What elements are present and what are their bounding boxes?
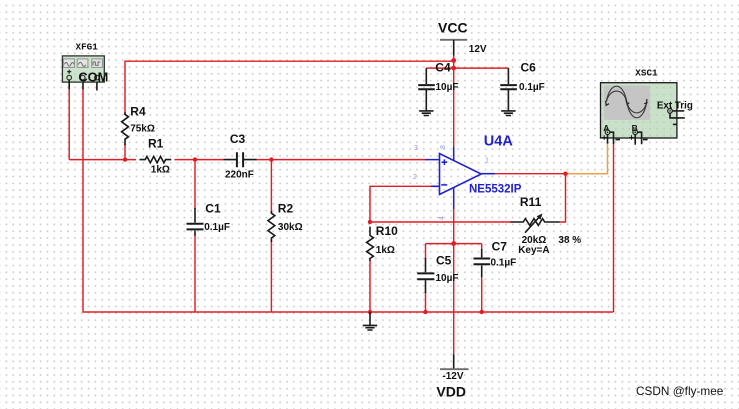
svg-text:C4: C4 [435,61,451,75]
junction: R4 / main net [123,157,127,161]
wire: R10 bottom lead to ground net [369,261,371,313]
wire: C7 top lead [481,244,483,250]
junction: R2 / main net [269,157,273,161]
wire: R4 bottom lead to main net [124,144,126,160]
svg-text:1: 1 [485,158,489,165]
svg-text:C6: C6 [521,61,537,75]
pin number 2 [413,174,417,181]
function generator XFG1 [62,41,108,90]
wire: R10 top node to R11 left lead [370,221,511,223]
wire: C5 bottom lead to ground net [425,292,427,312]
svg-text:0.1µF: 0.1µF [491,258,517,269]
wire: XFG1 plus terminal down to main input net [68,89,70,160]
svg-text:VDD: VDD [436,384,466,400]
resistor R1 [140,136,172,175]
svg-text:R2: R2 [278,202,294,216]
svg-text:0.1µF: 0.1µF [519,82,545,93]
wire: C4 top to C6 top rail [426,67,508,69]
wire: R1 right to C1 node and C3 left lead [175,159,224,161]
junction: C5 / ground net [423,310,427,314]
svg-text:0.1µF: 0.1µF [204,222,230,233]
junction: VCC node [451,58,456,63]
capacitor C7 [474,240,517,278]
wire: op-amp output to scope node [494,173,566,175]
svg-text:CSDN @fly-mee: CSDN @fly-mee [636,384,724,398]
svg-text:38 %: 38 % [558,235,581,246]
svg-text:XFG1: XFG1 [76,41,99,52]
op-amp U4A [425,134,521,209]
wire: R2 top lead from main net [270,160,272,213]
junction: pin2/R10/R11 node [368,220,372,224]
svg-text:1kΩ: 1kΩ [151,165,170,176]
svg-text:C7: C7 [492,240,508,254]
svg-text:10µF: 10µF [436,82,459,93]
junction: R10 / ground net [368,310,372,314]
capacitor C3 [223,132,256,180]
wire: C5 top lead [425,244,427,259]
wire: XFG1 COM down to ground net [83,89,614,312]
wire: main signal net left segment [69,159,136,161]
junction: C7 / ground net [480,310,484,314]
junction: C1 / main net [193,157,197,161]
junction: output node [563,172,567,176]
pin number 1 [485,158,489,165]
wire: R11 right lead up to output node [559,174,565,222]
svg-text:VCC: VCC [438,19,468,35]
ground under R10 [363,312,377,330]
svg-text:R11: R11 [520,195,542,209]
svg-text:R4: R4 [130,105,146,119]
svg-text:C1: C1 [205,202,221,216]
svg-text:Ext Trig: Ext Trig [657,100,693,111]
wire: C3 right to R2 node and op-amp pin3 [256,159,426,161]
potentiometer R11 [511,195,582,256]
svg-text:-12V: -12V [442,371,463,382]
svg-text:4: 4 [439,216,446,220]
svg-text:Key=A: Key=A [518,245,549,256]
resistor R10 [367,224,399,261]
wire: C7 bottom lead to ground net [481,276,483,312]
wire: orange output to scope channel A [566,143,608,173]
wire: C1 top lead from main net [194,160,196,209]
wire: VCC node down to C4/C6 rail and op-amp pin8 [453,60,455,147]
svg-text:U4A: U4A [484,134,514,150]
wire: R2 bottom lead to ground net [270,240,272,312]
capacitor C5 [417,254,458,294]
resistor R4 [122,105,155,146]
svg-text:R10: R10 [376,224,398,238]
pin number 8 [440,145,447,149]
ground under C4 [419,111,433,116]
oscilloscope XSC1 [601,68,693,145]
svg-text:NE5532IP: NE5532IP [469,183,522,195]
ground under C6 [501,111,515,116]
svg-text:3: 3 [414,145,418,152]
VDD power symbol (-12V) [436,355,468,400]
junction: C4/C6 rail on VCC line [451,66,456,71]
svg-text:12V: 12V [469,44,487,55]
svg-text:30kΩ: 30kΩ [278,222,303,233]
wire: C1 bottom lead to ground net [194,234,196,312]
resistor R2 [268,202,303,242]
svg-text:R1: R1 [148,136,164,150]
capacitor C1 [187,202,230,236]
svg-text:10µF: 10µF [436,273,459,284]
svg-text:A: A [603,123,609,133]
svg-text:C5: C5 [436,254,452,268]
svg-text:XSC1: XSC1 [635,68,658,79]
svg-text:C3: C3 [230,132,246,146]
pin number 3 [414,145,418,152]
capacitor C6 [500,61,544,111]
wire: op-amp pin4 down to VDD [453,209,455,356]
svg-text:220nF: 220nF [225,169,254,180]
svg-text:8: 8 [440,145,447,149]
wire: R4 top lead up and across to VCC node [125,61,454,115]
wire: C5/C7 top rail from pin4 net [426,243,482,245]
pin number 4 [439,216,446,220]
svg-text:1kΩ: 1kΩ [376,245,395,256]
wire: scope channel A minus down to ground net [613,144,615,312]
VCC power symbol [438,19,487,60]
wire: op-amp pin2 to R10/R11 node [370,186,432,222]
watermark CSDN [636,384,724,398]
svg-text:75kΩ: 75kΩ [130,124,155,135]
junction: C5/C7 rail on pin4 line [451,241,456,246]
capacitor C4 [418,61,458,111]
svg-text:2: 2 [413,174,417,181]
svg-text:20kΩ: 20kΩ [522,235,547,246]
